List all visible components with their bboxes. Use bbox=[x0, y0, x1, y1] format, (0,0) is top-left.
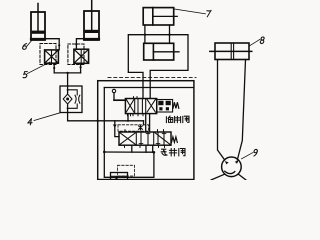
cut-off valve 5a body bbox=[45, 50, 59, 63]
one-way throttle valve 4 bbox=[60, 86, 82, 113]
wires: lift valve bottom ports to return bbox=[132, 145, 153, 152]
valve block outer enclosure bbox=[98, 81, 194, 180]
lift valve internal arrow caps bbox=[139, 134, 166, 144]
pin ticks lift valve bbox=[125, 130, 165, 148]
wire: cylinder1 port to valve 5a bbox=[45, 39, 60, 50]
label 9 bbox=[242, 149, 258, 158]
wires: steering unit to pump/tank (off page) bbox=[211, 174, 224, 180]
label 8 bbox=[249, 37, 264, 46]
tilt cylinder 7a bbox=[143, 8, 177, 25]
wire: inlet to tilt valve bbox=[114, 99, 125, 101]
cut-off valve 5b (dashed enclosure) bbox=[68, 44, 84, 65]
wire: bus joining both cylinders lines bbox=[54, 72, 80, 86]
wire: connectors between tilt cylinders bbox=[144, 25, 146, 43]
label 5 bbox=[23, 62, 50, 78]
lift cylinder 1 (left) bbox=[31, 4, 45, 41]
dashed service box between valves bbox=[118, 125, 149, 131]
assembly dash-dot boundary bbox=[108, 76, 196, 78]
junction dots on tilt cylinder bus bbox=[144, 34, 146, 36]
lift valve (3-position) bbox=[119, 132, 171, 145]
wire: tilt valve top port B up and over bbox=[128, 35, 188, 99]
tilt valve pilot box bbox=[157, 100, 173, 113]
lift valve spring bbox=[172, 137, 178, 143]
label 7 bbox=[175, 9, 211, 17]
valve block inner top rail bbox=[104, 87, 194, 89]
steering cylinder 8 bbox=[210, 43, 252, 60]
pin ticks tilt valve bottom bbox=[128, 114, 144, 116]
wire: throttle 4 output to valve block bbox=[68, 113, 144, 125]
return line to riser bbox=[104, 151, 154, 153]
wire: tilt valve bottom port to line bbox=[127, 114, 129, 122]
wire: valve 5b down to bus bbox=[80, 63, 82, 73]
pin stubs tilt valve top bbox=[133, 97, 135, 99]
wire: cylinder2 port to valve 5b bbox=[75, 39, 84, 50]
wire: steering cylinder left port to unit 9 bbox=[218, 60, 225, 161]
lift cylinder 2 (right) bbox=[84, 1, 99, 41]
wire: inlet drop to lift valve bbox=[115, 121, 119, 137]
tank return U pipe bbox=[103, 88, 155, 178]
tilt valve (3-position) bbox=[125, 99, 156, 114]
gauge port circle bbox=[112, 89, 115, 100]
relief valve (bottom, partially cut) bbox=[111, 165, 135, 180]
tilt valve spring bbox=[173, 102, 179, 108]
cut-off valve 5b body bbox=[74, 49, 89, 63]
label 4 bbox=[28, 113, 60, 125]
wire: steering cylinder right port to unit 9 bbox=[237, 60, 245, 161]
倾斜阀 label bbox=[166, 116, 189, 123]
起升阀 label bbox=[161, 149, 185, 156]
label 6 bbox=[22, 41, 31, 50]
wire: valve 5a down to bus bbox=[53, 63, 55, 73]
closed port symbol bbox=[139, 125, 143, 130]
steering unit 9 (circle) bbox=[222, 157, 242, 177]
cut-off valve 5a (dashed enclosure) bbox=[40, 44, 56, 65]
wire: channels between tilt and lift valves bbox=[145, 114, 147, 132]
tilt cylinder 7b bbox=[144, 43, 179, 60]
